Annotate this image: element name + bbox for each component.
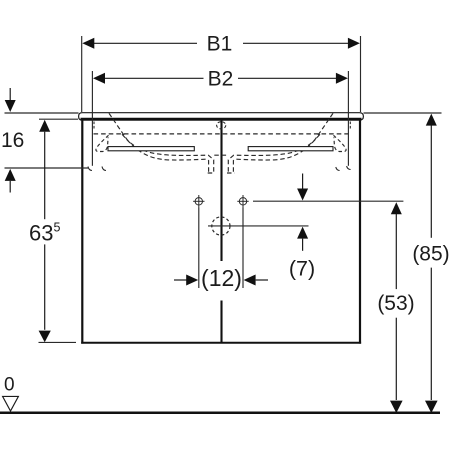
B1 arrow right [348,38,360,49]
drain funnel bottom right [227,172,235,174]
svg-text:(85): (85) [412,243,449,266]
16 bottom arrow (up) [5,169,16,181]
(7) upper arrow (down) [302,174,304,190]
B1 arrow left [82,38,94,49]
basin faucet hole (dashed) [217,122,226,129]
svg-text:(53): (53) [377,292,414,315]
B2 arrow right [336,73,348,84]
(12) extension line right [242,208,244,289]
cabinet right side [359,121,361,344]
drill hole crosshair right [237,195,248,208]
B2 arrow left [93,73,105,84]
countertop / washbasin slab outline [82,113,360,121]
16 top arrow (down) [9,88,11,100]
basin left edge overhang dash [93,122,95,129]
85 top extension line [364,112,442,114]
63.5 dimension line lower [44,244,46,329]
B2 dimension line [105,77,337,79]
basin left wall loop [96,135,109,151]
drain circle (dashed) [212,217,230,235]
basin foot mark left inner [102,167,106,171]
basin inner bowl curve right [228,113,333,172]
63.5 top arrow (up) [39,120,50,132]
(12) right arrow (pointing left) [244,275,256,286]
basin foot mark right outer [347,166,351,170]
right door handle slot [248,147,333,151]
drain circle center line [208,225,309,227]
(53) top extension handled by hole height line; (53) dimension line [395,214,397,289]
(12) extension line left [198,208,200,289]
(12) label [206,261,236,301]
svg-text:0: 0 [4,375,15,396]
B2 extension line right [347,71,349,166]
63.5 dimension line upper [44,132,46,220]
svg-text:(12): (12) [201,265,242,291]
63.5 bottom arrow (down) [39,331,51,343]
drain funnel top [214,154,227,156]
svg-text:B2: B2 [208,68,234,91]
B1 extension line right [360,36,362,112]
basin outer bowl curve right [233,134,320,172]
basin right edge overhang dash [349,122,351,129]
basin inner bowl curve left [109,113,214,172]
countertop bottom thick edge [81,118,362,121]
basin foot mark left outer [88,167,92,171]
left door handle slot [108,147,194,151]
63.5 top extension line [39,118,78,120]
(7) lower arrow (up) [297,227,308,239]
63.5 bottom extension line [39,341,77,343]
16 top extension line [5,112,79,114]
(85) dimension line [430,126,432,238]
drain funnel bottom left [208,172,215,174]
hole height extension line [253,200,403,202]
door gap center line [220,121,222,343]
16 bottom extension line [5,167,89,169]
basin dashed rim line [94,133,349,135]
B2 extension line left [91,71,93,166]
floor level triangle [3,396,19,411]
cabinet bottom [81,342,361,344]
cabinet left side [81,121,83,344]
svg-text:16: 16 [1,129,24,152]
svg-text:(7): (7) [289,257,315,281]
basin right wall loop [334,135,347,151]
basin foot mark right inner [336,167,340,171]
B1 dimension line [94,42,348,44]
floor line [0,412,440,415]
(12) left arrow (pointing right) [174,279,187,281]
B1 extension line left [81,36,83,112]
basin outer bowl curve left [122,134,209,172]
drill hole crosshair left [193,195,204,208]
svg-text:B1: B1 [207,33,233,56]
